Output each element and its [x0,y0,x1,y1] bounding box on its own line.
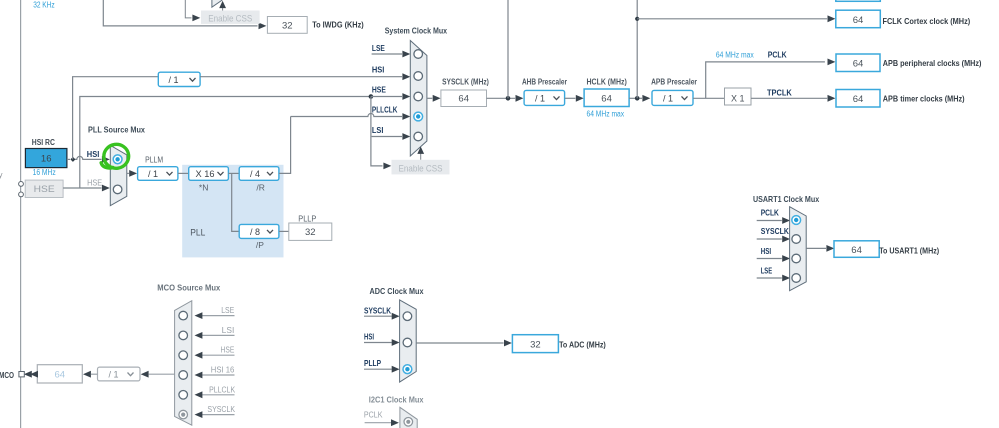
wire PCLK stub (I2C1) [365,419,399,426]
wire MCO mux out to divider [141,371,175,378]
mux MCO Source [175,301,192,426]
APB peripheral value box 64 [836,54,880,72]
svg-text:LSE: LSE [221,306,234,315]
wire FCLK branch [637,15,835,22]
wire PLLCLK riser (with hop over CSS drop) [279,113,410,173]
svg-text:To USART1 (MHz): To USART1 (MHz) [879,246,939,256]
svg-text:SYSCLK: SYSCLK [207,405,235,414]
svg-text:USART1 Clock Mux: USART1 Clock Mux [753,194,819,204]
svg-text:PLLP: PLLP [298,213,316,223]
wire LSE stub (MCO) [195,312,235,319]
HSI divider dropdown /1 [158,72,200,86]
arrow up from Enable CSS into SCM [417,147,424,160]
label 64 MHz max (PCLK) [716,50,754,59]
svg-text:SYSCLK (MHz): SYSCLK (MHz) [442,77,489,86]
svg-text:PLL: PLL [190,227,205,237]
PLL block region [182,165,283,258]
svg-text:16: 16 [41,154,52,165]
svg-text:PCLK: PCLK [761,207,780,217]
svg-text:64 MHz max: 64 MHz max [587,109,625,118]
label PLLP [298,213,316,223]
svg-text:To IWDG (KHz): To IWDG (KHz) [312,20,364,30]
svg-text:32 KHz: 32 KHz [33,1,55,10]
wire PLLCLK stub (MCO) [195,391,235,398]
svg-text:APB peripheral clocks (MHz): APB peripheral clocks (MHz) [883,58,982,68]
mux ADC Clock [400,300,417,382]
mux fragment (cut-off LSC mux bottom tip) [212,0,222,7]
svg-text:/ 8: / 8 [250,227,260,237]
svg-text:HSI: HSI [761,246,771,256]
svg-text:MCO: MCO [0,370,14,380]
wire LSE stub [757,275,790,282]
label HSI (PLL input) [87,149,100,159]
svg-text:I2C1 Clock Mux: I2C1 Clock Mux [369,395,424,405]
svg-text:64: 64 [853,94,864,105]
svg-text:64: 64 [601,94,612,105]
label PLLM [145,155,163,165]
svg-text:AHB Prescaler: AHB Prescaler [522,77,567,86]
svg-text:/ 1: / 1 [148,169,158,179]
label TPCLK [767,88,793,98]
svg-text:PLLCLK: PLLCLK [209,385,236,394]
svg-text:PLL Source Mux: PLL Source Mux [88,124,145,134]
svg-text:HSI: HSI [87,149,100,159]
svg-text:/R: /R [256,182,265,192]
wire HSE down to Enable CSS [371,97,391,170]
dropdown /P /8 [239,224,279,238]
label MCO [0,370,14,380]
wire PLLP stub (ADC) [364,366,400,373]
wire PCLK stub [757,217,790,224]
label PLLCLK (SCM input) [372,105,398,115]
node HSE junction [369,94,374,99]
HCLK value box 64 [584,89,629,107]
dropdown /R /4 [239,167,279,181]
svg-text:SYSCLK: SYSCLK [761,226,790,236]
svg-text:HSE: HSE [34,184,55,195]
svg-text:HSE: HSE [87,178,102,188]
svg-text:64: 64 [458,94,469,105]
wire HSI stub (ADC) [364,339,400,346]
svg-text:32: 32 [530,339,541,350]
HSI RC block [25,138,67,177]
label /P [256,240,264,250]
label SYSCLK (MHz) [442,77,489,86]
FCLK value box 64 [836,10,881,28]
svg-text:64: 64 [55,370,66,381]
title System Clock Mux [385,26,448,36]
svg-text:/ 1: / 1 [109,370,119,380]
title I2C1 Clock Mux [369,395,424,405]
label PCLK [768,49,788,59]
svg-text:64: 64 [853,15,864,26]
wire HSE riser to System Clock Mux [80,97,371,189]
wire LSI stub [372,133,411,140]
svg-text:/ 4: / 4 [250,169,260,179]
label 64 MHz max (HCLK) [587,109,625,118]
wire PLL mux out to PLLM [127,170,137,177]
svg-text:Enable CSS: Enable CSS [399,163,443,174]
wire SYSCLK stub (ADC) [364,313,400,320]
node SYSCLK junction [506,96,511,101]
label LSE (USART1 input) [761,266,773,276]
svg-text:LSI: LSI [222,326,235,335]
MCO value box 64 (disabled) [37,365,82,383]
label AHB Prescaler [522,77,567,86]
svg-text:LSE: LSE [761,266,773,276]
svg-text:HSI: HSI [364,331,374,341]
svg-text:HCLK (MHz): HCLK (MHz) [587,77,628,86]
svg-text:HSI 16: HSI 16 [211,366,235,375]
svg-text:Enable CSS: Enable CSS [208,14,252,25]
svg-text:MCO Source Mux: MCO Source Mux [157,283,220,293]
svg-text:SYSCLK: SYSCLK [364,305,392,315]
svg-text:/ 1: / 1 [535,94,545,104]
svg-text:ADC Clock Mux: ADC Clock Mux [370,286,424,296]
wire LSI stub (MCO) [195,332,235,339]
svg-text:X 1: X 1 [731,94,745,104]
label HSE (MCO input) [221,346,235,355]
label LSI (MCO input) [222,326,235,335]
label APB timer clocks (MHz) [883,94,965,104]
label LSE (MCO input) [221,306,234,315]
svg-text:64: 64 [851,245,862,256]
wire LSE stub [372,51,411,58]
wire SYSCLK stub [757,236,790,243]
PLLP value box 32 [289,223,332,240]
svg-text:PCLK: PCLK [364,410,383,420]
mux USART1 Clock [790,207,807,291]
wire HSE stub (MCO) [195,352,235,359]
svg-text:PCLK: PCLK [768,49,788,59]
wire HSI to PLL mux (with hop over HSE riser) [75,156,110,163]
label HSI 16 (MCO input) [211,366,235,375]
mux PLL Source [110,145,127,205]
svg-text:FCLK Cortex clock (MHz): FCLK Cortex clock (MHz) [883,16,971,26]
svg-text:*N: *N [199,182,208,192]
wire *N down to /P [232,173,240,231]
annotation green circle around HSI radio [101,143,130,170]
svg-text:APB Prescaler: APB Prescaler [651,77,697,86]
pin OSC_IN [19,182,24,187]
node FCLK branch [635,17,639,21]
label LSE (SCM input) [372,43,385,53]
wire PCLK riser [706,59,836,99]
wire SYSCLK stub (MCO) [195,411,235,418]
svg-text:32: 32 [305,227,316,238]
label /R [256,182,265,192]
title ADC Clock Mux [370,286,424,296]
pin MCO [19,372,24,377]
svg-text:APB timer clocks (MHz): APB timer clocks (MHz) [883,94,965,104]
label FCLK Cortex clock (MHz) [883,16,971,26]
svg-text:System Clock Mux: System Clock Mux [385,26,448,36]
node HCLK junction [635,96,640,101]
svg-text:HSI: HSI [372,65,385,75]
wire into Enable CSS (top) [185,0,200,21]
mux I2C1 Clock (cut at bottom) [400,407,417,428]
label PLLP (ADC input) [364,358,381,368]
dropdown MCO divider /1 (disabled) [98,367,141,381]
wire USART1 out [806,245,834,252]
ADC value box 32 [512,335,558,353]
svg-text:y: y [0,171,3,180]
wire HSE junction to mux arrow [371,93,410,100]
USART1 value box 64 [834,241,879,257]
svg-text:LSE: LSE [372,43,385,53]
label SYSCLK (USART1 input) [761,226,790,236]
multiplier X 1 box [725,88,752,105]
svg-text:PLLCLK: PLLCLK [372,105,398,115]
label To IWDG (KHz) [312,20,364,30]
label *N [199,182,208,192]
label HSI (SCM input) [372,65,385,75]
label HSI (ADC input) [364,331,374,341]
label PLLCLK (MCO input) [209,385,236,394]
value box (cut at top) [836,0,881,1]
label HSI (USART1 input) [761,246,771,256]
junction diamond HSI [70,157,75,162]
arrow up from Enable CSS into mux [219,1,226,11]
dropdown *N X16 [189,167,229,181]
label To USART1 (MHz) [879,246,939,256]
svg-text:X 16: X 16 [196,169,215,179]
Enable CSS box (top) [201,11,260,25]
wire HSE out [63,185,110,192]
svg-text:/ 1: / 1 [169,75,179,85]
mux System Clock [410,41,427,157]
svg-text:HSI RC: HSI RC [32,138,55,147]
wire SYSCLK to AHB [487,95,524,102]
svg-text:To ADC (MHz): To ADC (MHz) [559,340,606,350]
APB timer value box 64 [836,90,880,108]
label To ADC (MHz) [559,340,606,350]
title PLL Source Mux [88,124,145,134]
wire HSI out to junction [67,158,70,160]
SYSCLK value box 64 [441,90,487,107]
IWDG value box 32 [267,17,307,34]
svg-text:/P: /P [256,240,264,250]
label 32 KHz (LSI RC, cut off) [33,1,55,10]
label LSI (SCM input) [372,125,384,135]
Enable CSS box (SCM) [392,160,450,175]
label SYSCLK (MCO input) [207,405,235,414]
wire HSI 16 stub (MCO) [195,372,235,379]
svg-text:16 MHz: 16 MHz [33,168,56,177]
wire LSI to IWDG [103,0,266,29]
dropdown AHB /1 [524,90,565,105]
wire MCO double arrow to pin [24,371,38,378]
wire HSI stub [757,255,790,262]
svg-text:/ 1: / 1 [663,94,673,104]
wire HCLK to APB [629,95,650,102]
title MCO Source Mux [157,283,220,293]
wire AHB to HCLK [565,95,584,102]
wire APB out to X1 [693,97,725,99]
svg-text:PLLP: PLLP [364,358,381,368]
svg-text:HSE: HSE [372,85,386,95]
svg-text:64 MHz max: 64 MHz max [716,50,754,59]
svg-text:LSI: LSI [372,125,384,135]
svg-text:HSE: HSE [221,346,235,355]
HSE block [25,180,63,197]
label APB Prescaler [651,77,697,86]
wire HSI up to divider [73,77,159,160]
wire HCLK riser (cut at top) [636,0,638,98]
wire SCM out to SYSCLK box [427,95,441,102]
svg-text:64: 64 [853,58,864,69]
svg-text:TPCLK: TPCLK [767,88,793,98]
wire PLLM to *N [178,172,189,174]
label SYSCLK (ADC input) [364,305,392,315]
wire ADC out [416,340,512,347]
label HCLK (MHz) [587,77,628,86]
svg-text:32: 32 [282,20,293,31]
wire X1 to APB timer box [751,95,835,102]
label PCLK (USART1 input) [761,207,780,217]
dropdown PLLM /1 [138,167,178,181]
label APB peripheral clocks (MHz) [883,58,982,68]
label HSE (SCM input) [372,85,386,95]
wire divider to System Clock Mux HSI [200,73,410,80]
cut-off text tail y [0,171,3,180]
wire SYSCLK riser (cut at top) [507,0,509,98]
chip boundary line [20,0,22,428]
dropdown APB /1 [652,90,693,105]
title USART1 Clock Mux [753,194,819,204]
svg-text:PLLM: PLLM [145,155,163,165]
wire *N to /R [228,172,239,174]
pin OSC_OUT [19,192,24,197]
wire divider to MCO box [83,371,98,378]
label HSE (PLL input, gray) [87,178,102,188]
label PCLK (I2C1 input) [364,410,383,420]
wire /P to PLLP box [279,230,289,232]
